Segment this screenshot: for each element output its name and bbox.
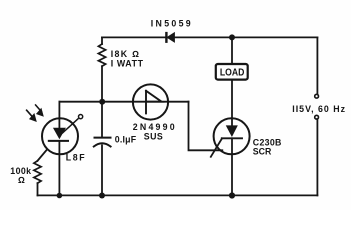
wire top rail to LOAD [231,37,233,64]
svg-text:SUS: SUS [144,131,163,141]
resistor R1 18K 1 WATT [98,44,105,66]
wire right rail upper [316,37,318,94]
wire L8F cathode down to bottom rail [58,141,60,195]
light arrow 2 [36,105,43,116]
svg-text:Ω: Ω [18,175,25,185]
wire bottom rail [38,194,318,196]
wire gate diagonal into SCR [211,138,222,156]
wire top rail [102,36,317,38]
svg-text:II5V, 60 Hz: II5V, 60 Hz [292,104,346,114]
L8F thyristor triangle [54,128,65,138]
node bottom capacitor [99,193,105,199]
L8F cathode bar [49,140,68,142]
wire middle rail [59,101,188,103]
terminal upper [315,94,319,98]
wire left vertical (top rail to resistor) [101,37,103,44]
svg-text:I WATT: I WATT [111,59,144,69]
svg-text:I8K Ω: I8K Ω [111,49,140,59]
SCR Q1 C230B [214,118,250,195]
wire 100k to bottom rail [37,183,39,195]
svg-text:IN5059: IN5059 [151,19,193,29]
L8F anode line inside [58,119,60,129]
node top rail above load [229,34,235,40]
light arrow 1 [27,110,36,121]
node bottom SCR [229,192,235,198]
svg-text:0.IμF: 0.IμF [115,135,137,145]
wire right rail lower [316,119,318,195]
wire resistor to middle-rail junction [101,66,103,102]
capacitor C1 0.1uF [94,102,111,196]
wire L8F anode from middle rail [58,102,60,119]
terminal lower [315,115,319,119]
photo-SCR L8F [38,102,83,196]
L8F gate lead [38,149,48,161]
node bottom L8F [57,193,63,199]
svg-text:L8F: L8F [66,153,86,163]
L8F circle [42,118,78,154]
L8F auxiliary terminal circle [79,115,83,119]
diode D1 1N5059 [166,33,174,42]
resistor R2 100k [34,161,41,183]
svg-text:SCR: SCR [253,146,272,156]
svg-text:LOAD: LOAD [220,67,245,78]
wire SUS output to SCR gate [189,102,223,151]
node junction middle rail [99,99,105,105]
load LOAD [216,64,248,80]
L8F auxiliary terminal diagonal [63,119,79,133]
SUS U1 2N4990 [133,84,168,119]
wire LOAD to SCR anode [231,80,233,118]
